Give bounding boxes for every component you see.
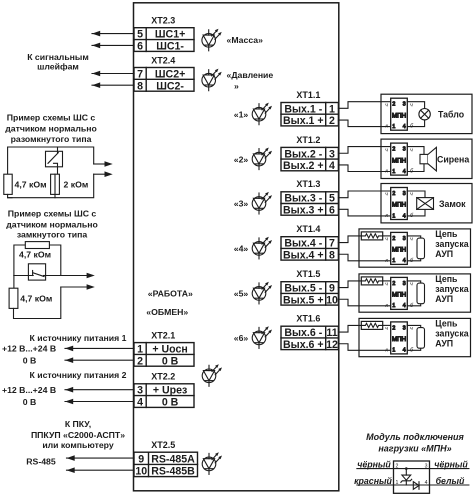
node 0 В (2) bbox=[23, 397, 37, 407]
svg-text:0 В: 0 В bbox=[23, 355, 37, 365]
svg-text:«ОБМЕН»: «ОБМЕН» bbox=[146, 307, 188, 317]
enclosure box row 3 bbox=[381, 184, 472, 223]
svg-text:«4»: «4» bbox=[234, 244, 249, 254]
wire internal buses bbox=[394, 469, 430, 485]
svg-text:«Масса»: «Масса» bbox=[227, 35, 264, 45]
actuator АУП row 4 bbox=[417, 238, 425, 259]
wire чёрный top right bbox=[430, 468, 469, 470]
label Табло bbox=[438, 110, 465, 120]
svg-text:«1»: «1» bbox=[234, 109, 249, 119]
enclosure box row 4 bbox=[359, 229, 471, 267]
LED indicator power bbox=[202, 364, 222, 386]
wire bbox=[92, 82, 134, 88]
wire Вых.4- to МПН pin 2 bbox=[338, 236, 390, 243]
svg-text:Вых.6 -: Вых.6 - bbox=[284, 327, 322, 339]
wire Вых.6+ to МПН pin 1 bbox=[338, 344, 390, 351]
svg-text:Вых.3 -: Вых.3 - bbox=[284, 193, 322, 205]
wire to ШС+ (circuit 1) bbox=[94, 161, 113, 167]
svg-text:Пример схемы ШС с: Пример схемы ШС с bbox=[7, 113, 96, 123]
node +12 В...+24 В (1) bbox=[2, 344, 56, 354]
LED indicator «2» bbox=[234, 148, 272, 170]
svg-text:или компьютеру: или компьютеру bbox=[42, 440, 114, 450]
svg-text:Вых.4 +: Вых.4 + bbox=[283, 249, 324, 261]
pin 1 bbox=[396, 480, 399, 486]
LED indicator «Давление» bbox=[202, 69, 222, 91]
wire bbox=[65, 399, 134, 405]
wire bottom bus circuit 1 bbox=[8, 174, 94, 198]
svg-text:запуска: запуска bbox=[435, 329, 468, 339]
label «Давление» bbox=[227, 70, 274, 91]
pin 2 bbox=[396, 463, 399, 469]
svg-text:+ Uосн: + Uосн bbox=[152, 344, 187, 356]
wire МПН to АУП row 6 bbox=[407, 325, 420, 350]
detector contact (normally closed) bbox=[14, 264, 46, 280]
lock Замок bbox=[417, 198, 434, 210]
terminal block ХТ2.2 label bbox=[151, 372, 175, 382]
wire Вых.1+ to МПН pin 1 bbox=[338, 120, 390, 127]
svg-text:нагрузки «МПН»: нагрузки «МПН» bbox=[378, 443, 451, 453]
wire Вых.5- to МПН pin 2 bbox=[338, 281, 390, 288]
svg-text:2: 2 bbox=[137, 355, 143, 367]
svg-text:+ Uрез: + Uрез bbox=[153, 385, 187, 397]
svg-text:красный: красный bbox=[354, 476, 392, 486]
svg-text:0 В: 0 В bbox=[162, 397, 179, 409]
svg-text:4,7 кОм: 4,7 кОм bbox=[15, 180, 47, 190]
resistor 2 кОм (circuit 1) bbox=[51, 174, 89, 194]
svg-text:Табло: Табло bbox=[438, 110, 465, 120]
svg-text:9: 9 bbox=[329, 283, 335, 295]
svg-text:ХТ1.1: ХТ1.1 bbox=[296, 90, 320, 100]
wire Вых.2+ to МПН pin 1 bbox=[338, 165, 390, 172]
svg-text:7: 7 bbox=[329, 238, 335, 250]
resistor 4,7 кОм horizontal (circuit 2) bbox=[19, 242, 51, 260]
resistor (squib) row 6 bbox=[361, 321, 382, 329]
label красный (bottom left) bbox=[354, 476, 392, 486]
node К ПКУ ППКУП С2000-АСПТ bbox=[31, 419, 125, 450]
svg-text:Пример схемы ШС с: Пример схемы ШС с bbox=[8, 209, 97, 219]
wire to ШС- (circuit 1) bbox=[94, 171, 113, 177]
svg-text:Сирена: Сирена bbox=[437, 155, 469, 165]
wire bbox=[65, 346, 134, 352]
svg-text:»: » bbox=[234, 81, 239, 91]
svg-text:Вых.2 +: Вых.2 + bbox=[283, 160, 324, 172]
terminal block ХТ1.4 label bbox=[296, 224, 320, 234]
actuator АУП row 5 bbox=[417, 283, 425, 304]
svg-text:+12 В...+24 В: +12 В...+24 В bbox=[2, 385, 56, 395]
svg-text:ХТ2.1: ХТ2.1 bbox=[151, 330, 175, 340]
svg-text:Вых.1 -: Вых.1 - bbox=[284, 103, 322, 115]
resistor (squib) row 4 bbox=[361, 232, 382, 240]
note Модуль подключения нагрузки «МПН» bbox=[366, 432, 464, 453]
wire bbox=[92, 31, 134, 37]
actuator АУП row 6 bbox=[417, 328, 425, 349]
svg-text:1: 1 bbox=[137, 344, 143, 356]
device body outline bbox=[134, 3, 339, 491]
svg-text:Цепь: Цепь bbox=[435, 274, 458, 284]
terminal block ХТ1.3 label bbox=[296, 179, 320, 189]
resistor (squib) row 5 bbox=[361, 277, 382, 285]
wire top bus circuit 1 bbox=[8, 147, 94, 174]
wire bbox=[92, 71, 134, 77]
svg-text:К источнику питания 2: К источнику питания 2 bbox=[30, 370, 127, 380]
svg-text:1: 1 bbox=[329, 103, 335, 115]
svg-text:Вых.2 -: Вых.2 - bbox=[284, 148, 322, 160]
LED indicator «5» bbox=[234, 282, 272, 304]
svg-text:RS-485: RS-485 bbox=[26, 456, 56, 466]
svg-text:4: 4 bbox=[137, 397, 143, 409]
wire bbox=[67, 455, 135, 461]
svg-text:Цепь: Цепь bbox=[435, 318, 458, 328]
LED indicator «Масса» bbox=[202, 29, 222, 51]
terminal block ХТ1.1 bbox=[281, 103, 338, 128]
resistor 4,7 кОм (circuit 1) bbox=[4, 174, 47, 194]
terminal block ХТ1.4 bbox=[281, 237, 338, 262]
svg-text:разомкнутого типа: разомкнутого типа bbox=[11, 134, 92, 144]
module МПН row 1 bbox=[385, 98, 414, 130]
wire to ШС- (circuit 2) bbox=[61, 284, 95, 290]
pin 4 bbox=[425, 480, 428, 486]
module МПН row 6 bbox=[385, 322, 414, 354]
svg-text:датчиком нормально: датчиком нормально bbox=[6, 219, 98, 229]
svg-text:0 В: 0 В bbox=[162, 355, 179, 367]
label Цепь запуска АУП row 6 bbox=[435, 318, 468, 348]
svg-text:8: 8 bbox=[137, 80, 143, 92]
node +12 В...+24 В (2) bbox=[2, 385, 56, 395]
svg-text:ШС1-: ШС1- bbox=[156, 40, 184, 52]
svg-text:чёрный: чёрный bbox=[357, 459, 391, 469]
svg-text:ППКУП «С2000-АСПТ»: ППКУП «С2000-АСПТ» bbox=[31, 430, 125, 440]
svg-text:RS-485B: RS-485B bbox=[151, 466, 195, 478]
svg-text:«6»: «6» bbox=[234, 333, 249, 343]
enclosure box row 1 bbox=[381, 94, 472, 133]
wire Вых.1- to МПН pin 2 bbox=[338, 102, 390, 109]
svg-text:6: 6 bbox=[137, 40, 143, 52]
svg-text:ХТ1.2: ХТ1.2 bbox=[296, 135, 320, 145]
module МПН row 5 bbox=[385, 277, 414, 309]
svg-text:чёрный: чёрный bbox=[434, 459, 468, 469]
wire contact to ШС+ (circuit 2) bbox=[46, 273, 95, 279]
svg-text:К ПКУ,: К ПКУ, bbox=[65, 419, 91, 429]
terminal block ХТ1.5 bbox=[281, 282, 338, 307]
terminal block ХТ1.2 bbox=[281, 147, 338, 172]
LED indicator «4» bbox=[234, 237, 272, 259]
svg-text:2 кОм: 2 кОм bbox=[64, 180, 89, 190]
label чёрный (top left) bbox=[357, 459, 391, 469]
svg-text:датчиком нормально: датчиком нормально bbox=[5, 124, 97, 134]
svg-text:4,7 кОм: 4,7 кОм bbox=[19, 250, 51, 260]
terminal block ХТ2.5 label bbox=[151, 440, 175, 450]
svg-text:ХТ2.5: ХТ2.5 bbox=[151, 440, 175, 450]
svg-text:К источнику питания 1: К источнику питания 1 bbox=[30, 333, 127, 343]
svg-text:11: 11 bbox=[326, 327, 337, 339]
LED indicator RS-485 bbox=[202, 452, 222, 474]
node К источнику питания 2 bbox=[30, 370, 127, 380]
svg-text:10: 10 bbox=[135, 466, 147, 478]
svg-text:Вых.3 +: Вых.3 + bbox=[283, 204, 324, 216]
label «РАБОТА» bbox=[148, 288, 193, 298]
enclosure box row 5 bbox=[359, 274, 471, 312]
svg-text:+12 В...+24 В: +12 В...+24 В bbox=[2, 344, 56, 354]
svg-text:5: 5 bbox=[329, 193, 335, 205]
wire МПН to АУП row 4 bbox=[407, 236, 420, 261]
wire Вых.5+ to МПН pin 1 bbox=[338, 299, 390, 306]
LED indicator «3» bbox=[234, 192, 272, 214]
svg-text:4: 4 bbox=[329, 160, 335, 172]
label Цепь запуска АУП row 5 bbox=[435, 274, 468, 304]
svg-text:«Давление: «Давление bbox=[227, 70, 274, 80]
svg-text:ХТ1.6: ХТ1.6 bbox=[296, 314, 320, 324]
wire Вых.6- to МПН pin 2 bbox=[338, 325, 390, 332]
pin 3 bbox=[425, 463, 428, 469]
svg-text:Вых.6 +: Вых.6 + bbox=[283, 339, 324, 351]
wire bbox=[92, 43, 134, 49]
svg-text:белый: белый bbox=[436, 476, 465, 486]
lamp Табло bbox=[419, 109, 430, 120]
svg-text:5: 5 bbox=[137, 29, 143, 41]
node К сигнальным шлейфам bbox=[27, 52, 89, 72]
svg-text:ШС1+: ШС1+ bbox=[155, 29, 185, 41]
svg-text:шлейфам: шлейфам bbox=[37, 62, 79, 72]
module МПН row 4 bbox=[385, 232, 414, 264]
svg-text:замкнутого типа: замкнутого типа bbox=[17, 229, 88, 239]
svg-text:ХТ2.3: ХТ2.3 bbox=[151, 16, 175, 26]
svg-text:ШС2-: ШС2- bbox=[156, 80, 184, 92]
svg-text:Модуль подключения: Модуль подключения bbox=[366, 432, 464, 442]
svg-text:Вых.4 -: Вых.4 - bbox=[284, 238, 322, 250]
svg-text:3: 3 bbox=[137, 385, 143, 397]
terminal block ХТ2.3 bbox=[134, 28, 194, 53]
svg-text:4,7 кОм: 4,7 кОм bbox=[20, 293, 52, 303]
wire bbox=[65, 387, 134, 393]
wire bbox=[67, 467, 135, 473]
label чёрный (top right) bbox=[434, 459, 468, 469]
svg-text:ХТ2.2: ХТ2.2 bbox=[151, 372, 175, 382]
TVS diode vertical bbox=[401, 467, 412, 485]
speaker Сирена bbox=[420, 147, 436, 171]
wire МПН to Замок bbox=[407, 191, 425, 216]
svg-text:0 В: 0 В bbox=[23, 397, 37, 407]
module МПН row 3 bbox=[385, 188, 414, 220]
terminal block ХТ2.4 label bbox=[151, 55, 175, 65]
svg-text:Замок: Замок bbox=[439, 199, 466, 209]
label Цепь запуска АУП row 4 bbox=[435, 229, 468, 259]
terminal block ХТ1.3 bbox=[281, 192, 338, 217]
wire красный bottom left bbox=[357, 484, 394, 486]
wire bottom bus circuit 2 bbox=[14, 287, 61, 319]
wire МПН to Табло bbox=[407, 102, 424, 127]
label «Масса» bbox=[227, 35, 264, 45]
wire top bus circuit 2 bbox=[14, 245, 61, 276]
label Сирена bbox=[437, 155, 469, 165]
terminal block ХТ2.5 bbox=[134, 452, 198, 477]
svg-text:«5»: «5» bbox=[234, 289, 249, 299]
terminal block ХТ1.6 bbox=[281, 326, 338, 351]
terminal block ХТ1.6 label bbox=[296, 314, 320, 324]
svg-text:запуска: запуска bbox=[435, 284, 468, 294]
svg-text:ХТ1.5: ХТ1.5 bbox=[296, 269, 320, 279]
terminal block ХТ2.1 bbox=[134, 343, 194, 368]
svg-text:Вых.5 -: Вых.5 - bbox=[284, 283, 322, 295]
terminal block ХТ1.5 label bbox=[296, 269, 320, 279]
wire Вых.4+ to МПН pin 1 bbox=[338, 254, 390, 261]
module МПН row 2 bbox=[385, 143, 414, 175]
resistor 4,7 кОм vertical (circuit 2) bbox=[9, 276, 52, 309]
enclosure box row 2 bbox=[381, 139, 472, 178]
wire Вых.3- to МПН pin 2 bbox=[338, 191, 390, 198]
svg-text:2: 2 bbox=[329, 115, 335, 127]
terminal block ХТ1.1 label bbox=[296, 90, 320, 100]
svg-text:К сигнальным: К сигнальным bbox=[27, 52, 89, 62]
label «ОБМЕН» bbox=[146, 307, 188, 317]
wire Вых.3+ to МПН pin 1 bbox=[338, 209, 390, 216]
diode horizontal bbox=[413, 482, 419, 490]
terminal block ХТ2.1 label bbox=[151, 330, 175, 340]
note Пример схемы ШС (норм. разомкнутый) bbox=[5, 113, 97, 145]
svg-text:Цепь: Цепь bbox=[435, 229, 458, 239]
svg-text:RS-485A: RS-485A bbox=[151, 453, 195, 465]
terminal block ХТ1.2 label bbox=[296, 135, 320, 145]
svg-text:АУП: АУП bbox=[435, 339, 453, 349]
wire белый bottom right bbox=[430, 484, 469, 486]
wire bbox=[65, 357, 134, 363]
svg-text:Вых.5 +: Вых.5 + bbox=[283, 294, 324, 306]
node К источнику питания 1 bbox=[30, 333, 127, 343]
svg-text:8: 8 bbox=[329, 249, 335, 261]
svg-text:3: 3 bbox=[329, 148, 335, 160]
svg-text:9: 9 bbox=[138, 453, 144, 465]
svg-text:ХТ1.3: ХТ1.3 bbox=[296, 179, 320, 189]
enclosure box row 6 bbox=[359, 318, 471, 356]
LED indicator «6» bbox=[234, 326, 272, 348]
terminal block ХТ2.3 label bbox=[151, 16, 175, 26]
svg-text:7: 7 bbox=[137, 68, 143, 80]
svg-text:12: 12 bbox=[326, 339, 338, 351]
svg-text:«РАБОТА»: «РАБОТА» bbox=[148, 288, 193, 298]
svg-text:Вых.1 +: Вых.1 + bbox=[283, 115, 324, 127]
node RS-485 bbox=[26, 456, 56, 466]
wire МПН to Сирена bbox=[407, 147, 424, 172]
wire Вых.2- to МПН pin 2 bbox=[338, 147, 390, 154]
svg-text:6: 6 bbox=[329, 204, 335, 216]
svg-text:ХТ1.4: ХТ1.4 bbox=[296, 224, 320, 234]
module МПН detail box bbox=[394, 461, 430, 493]
terminal block ХТ2.4 bbox=[134, 68, 194, 93]
LED indicator «1» bbox=[234, 103, 272, 125]
detector contact (normally open) bbox=[46, 147, 63, 174]
wire МПН to АУП row 5 bbox=[407, 281, 420, 306]
label Замок bbox=[439, 199, 466, 209]
svg-text:запуска: запуска bbox=[435, 239, 468, 249]
svg-text:ХТ2.4: ХТ2.4 bbox=[151, 55, 175, 65]
label белый (bottom right) bbox=[436, 476, 465, 486]
svg-text:ШС2+: ШС2+ bbox=[155, 68, 185, 80]
node 0 В (1) bbox=[23, 355, 37, 365]
svg-text:АУП: АУП bbox=[435, 249, 453, 259]
wire чёрный top left bbox=[357, 468, 394, 470]
terminal block ХТ2.2 bbox=[134, 384, 194, 409]
svg-text:«3»: «3» bbox=[234, 199, 249, 209]
note Пример схемы ШС (норм. замкнутый) bbox=[6, 209, 98, 240]
svg-text:«2»: «2» bbox=[234, 154, 249, 164]
svg-text:10: 10 bbox=[326, 294, 338, 306]
svg-text:АУП: АУП bbox=[435, 294, 453, 304]
